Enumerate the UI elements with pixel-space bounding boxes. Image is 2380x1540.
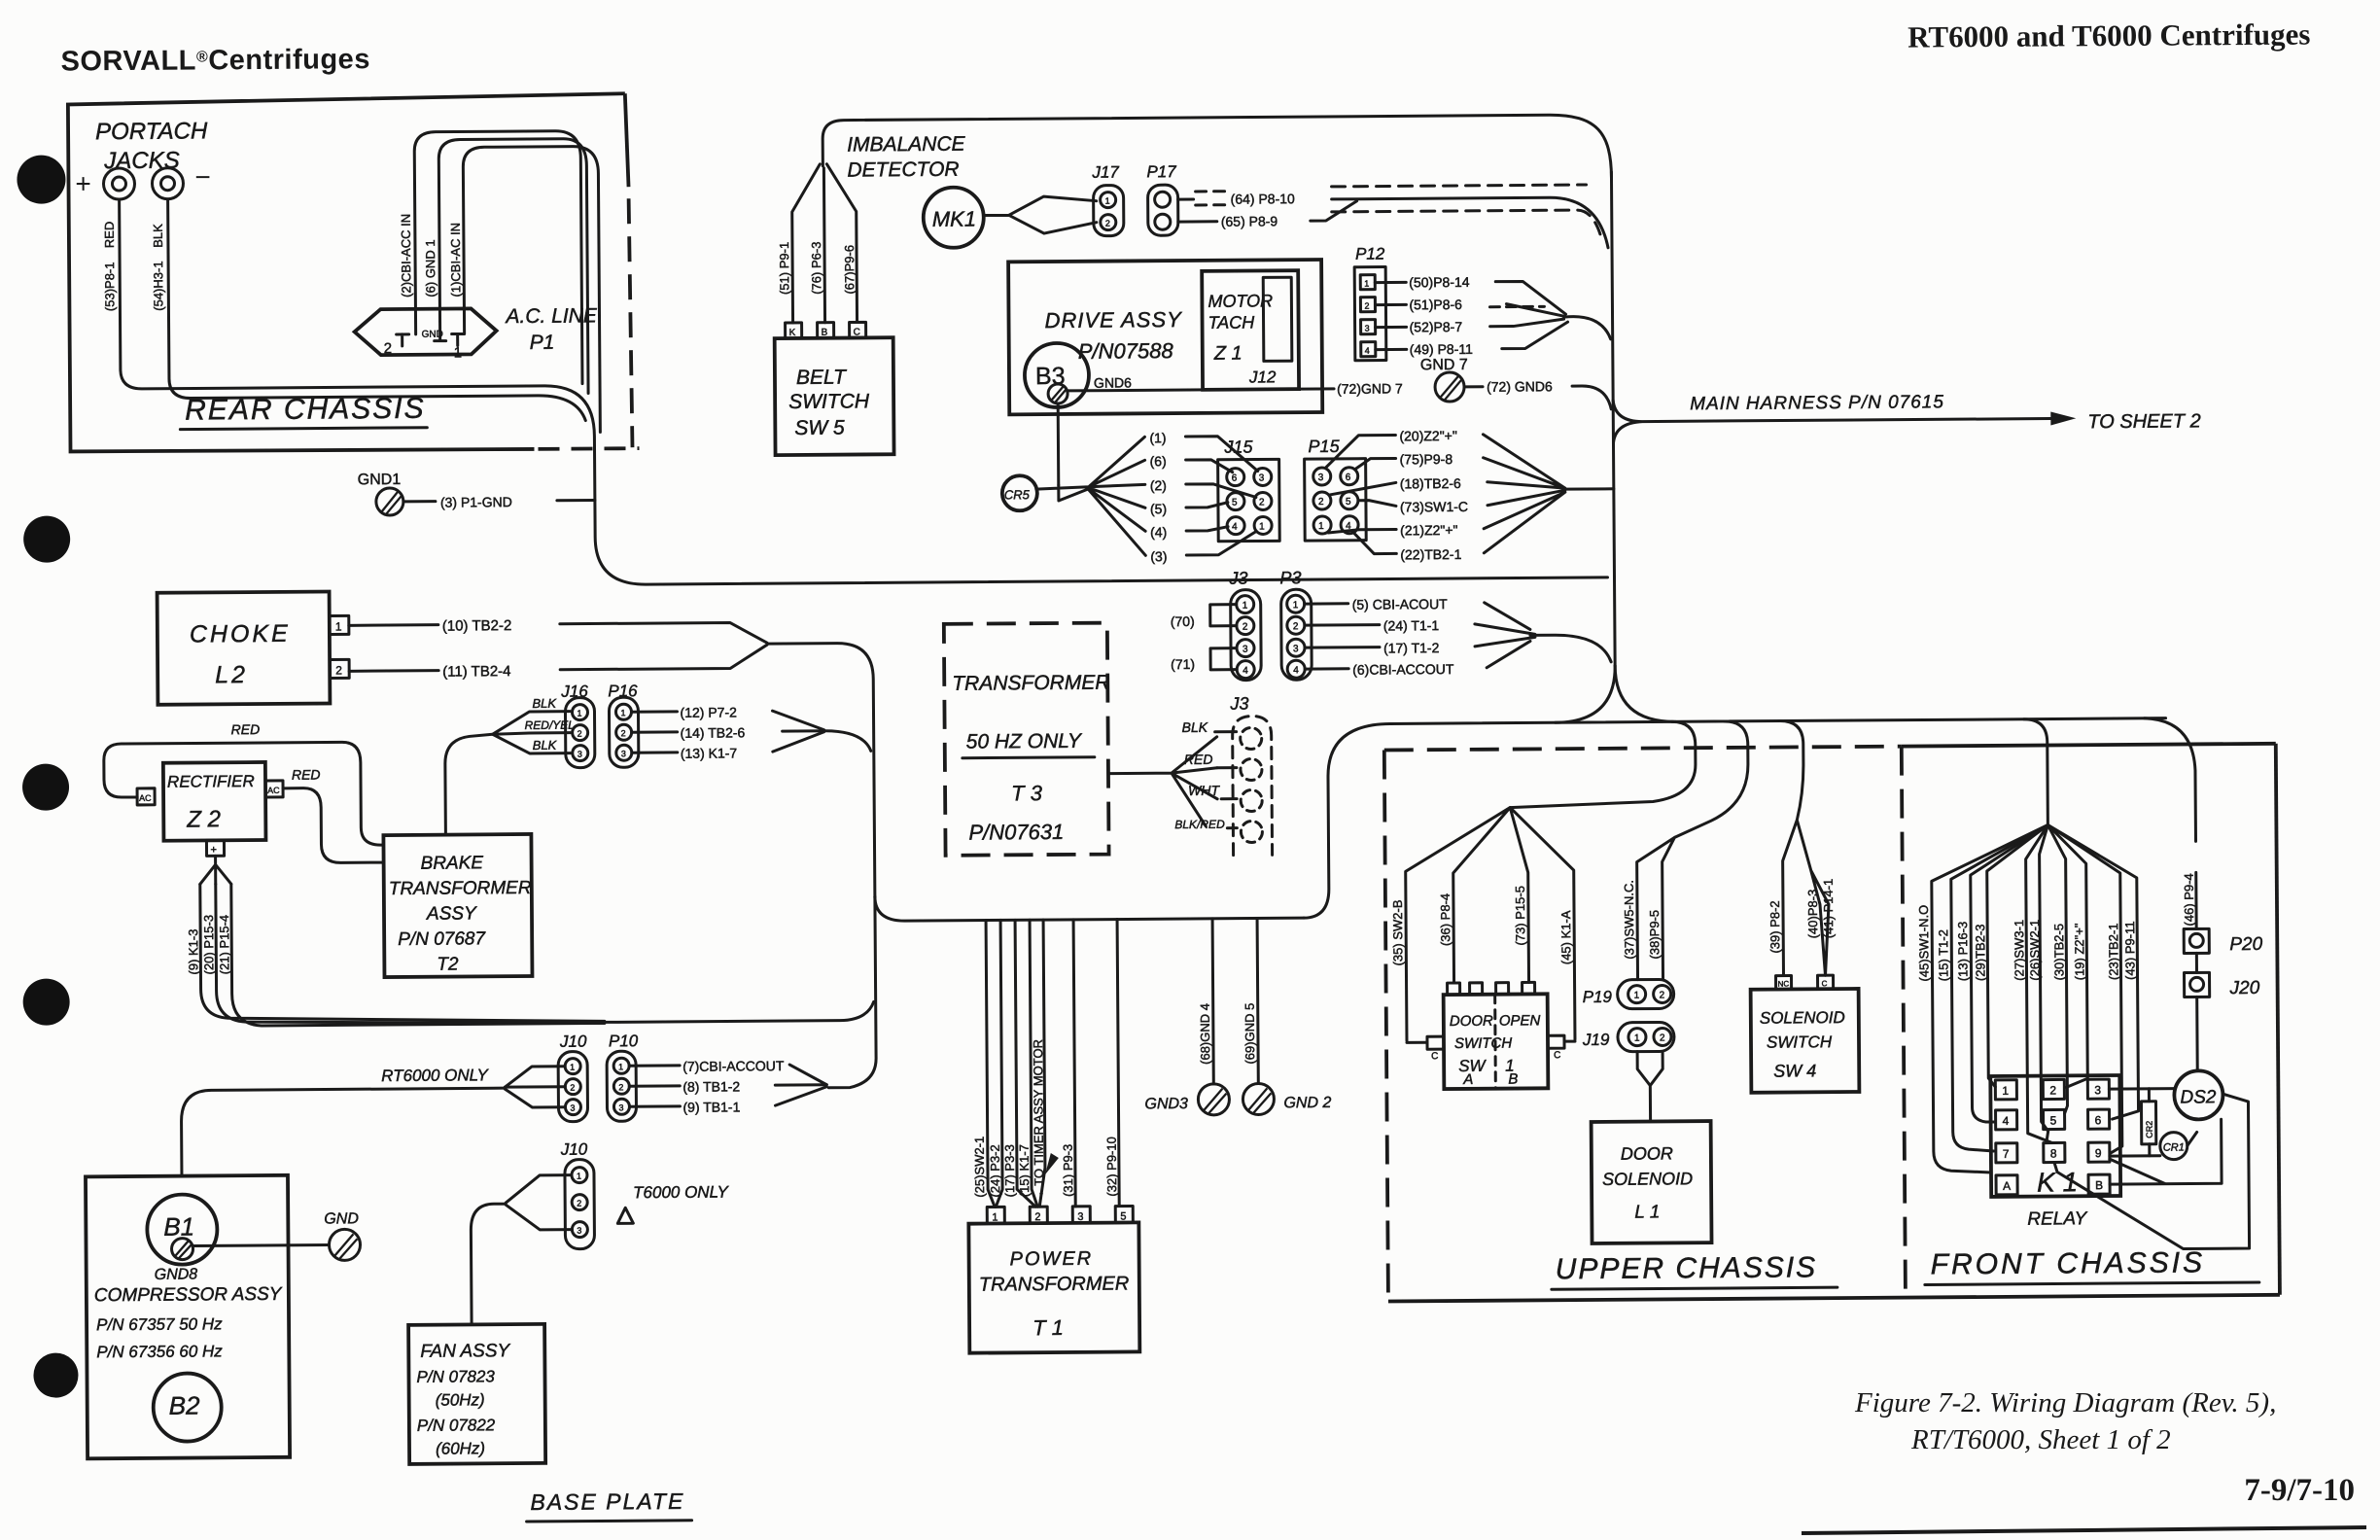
svg-text:MOTOR: MOTOR	[1207, 291, 1273, 310]
wire P10-3	[629, 1104, 680, 1107]
svg-text:5: 5	[1232, 498, 1238, 508]
svg-text:(31) P9-3: (31) P9-3	[1061, 1144, 1075, 1197]
svg-text:3: 3	[1365, 324, 1370, 333]
svg-text:P15: P15	[1308, 437, 1340, 456]
svg-text:SW 5: SW 5	[794, 417, 845, 439]
svg-text:2: 2	[1105, 219, 1110, 228]
svg-text:P/N 07823: P/N 07823	[416, 1367, 495, 1386]
connector A.C. LINE P1 hexagon	[354, 308, 496, 355]
svg-text:C: C	[854, 327, 860, 337]
svg-text:TO SHEET 2: TO SHEET 2	[2087, 410, 2200, 433]
svg-text:+: +	[75, 168, 91, 198]
wire drop to K1 fan	[2024, 719, 2048, 825]
svg-text:POWER: POWER	[1010, 1248, 1094, 1271]
svg-text:(76) P6-3: (76) P6-3	[809, 242, 823, 295]
svg-text:(72) GND6: (72) GND6	[1487, 378, 1553, 394]
svg-text:AC: AC	[139, 793, 152, 803]
svg-text:(29)TB2-3: (29)TB2-3	[1973, 924, 1987, 981]
svg-text:(18)TB2-6: (18)TB2-6	[1400, 475, 1461, 491]
svg-text:RED: RED	[1184, 752, 1213, 767]
wire P3 bundle to trunk	[1530, 635, 1611, 663]
wire long RED from Z2 AC-left	[104, 742, 384, 847]
wire J19 to L1	[1637, 1051, 1663, 1121]
svg-text:(3) P1-GND: (3) P1-GND	[440, 494, 512, 510]
svg-text:DS2: DS2	[2180, 1087, 2217, 1107]
solenoid L1 box	[1592, 1121, 1712, 1243]
K1 terminal 4	[1996, 1110, 2017, 1130]
svg-text:(9) K1-3: (9) K1-3	[186, 928, 200, 974]
bottom rule	[1802, 1527, 2366, 1533]
svg-text:6: 6	[2095, 1113, 2102, 1127]
K1 terminal 2	[2043, 1079, 2064, 1099]
svg-text:(70): (70)	[1171, 613, 1195, 629]
svg-text:FRONT CHASSIS: FRONT CHASSIS	[1931, 1246, 2206, 1280]
wire J15 bundle merge to trunk	[1483, 434, 1614, 553]
wire P15 pin3 to (20)	[1325, 435, 1395, 468]
node SW1 branch fan	[1405, 807, 1575, 1040]
ground screw GND8	[171, 1239, 192, 1260]
svg-text:GND 2: GND 2	[1283, 1095, 1331, 1111]
svg-text:BLK/RED: BLK/RED	[1174, 818, 1225, 831]
svg-text:2: 2	[577, 1199, 581, 1208]
wire (4) to J15 pin4	[1186, 527, 1228, 531]
wire left C stub	[1407, 1041, 1427, 1044]
bracket (70) jumper pins1-2	[1210, 605, 1237, 626]
svg-text:7: 7	[2003, 1147, 2010, 1161]
relay K1 box	[1990, 1075, 2120, 1197]
wire choke-1	[349, 623, 438, 627]
svg-text:(13) P16-3: (13) P16-3	[1955, 922, 1970, 982]
svg-text:P1: P1	[530, 332, 555, 354]
svg-text:(51) P9-1: (51) P9-1	[777, 242, 791, 295]
motor B3	[1025, 343, 1089, 407]
svg-text:P/N 07822: P/N 07822	[417, 1416, 496, 1435]
svg-text:(64) P8-10: (64) P8-10	[1231, 191, 1295, 206]
wire S-bend bundle up to y746	[1303, 723, 1391, 918]
svg-text:−: −	[194, 161, 211, 192]
svg-text:1: 1	[335, 619, 342, 633]
upper chassis dashed border	[1384, 751, 1388, 1300]
svg-text:1: 1	[618, 1062, 623, 1071]
chassis divider dashed	[1902, 747, 1906, 1296]
svg-text:(20) P15-3: (20) P15-3	[201, 915, 216, 975]
svg-text:(7)CBI-ACCOUT: (7)CBI-ACCOUT	[682, 1058, 785, 1074]
svg-text:SWITCH: SWITCH	[788, 390, 870, 413]
wire P15 pin2 to (18)	[1330, 482, 1396, 494]
svg-text:Z 1: Z 1	[1213, 343, 1242, 365]
svg-text:CR5: CR5	[1004, 487, 1031, 502]
svg-text:FAN ASSY: FAN ASSY	[420, 1341, 510, 1362]
wire P12-1	[1375, 281, 1406, 284]
wire CR5 fan to J15 leads	[1035, 437, 1145, 556]
svg-text:2: 2	[1364, 301, 1369, 311]
wire T1 lead (17)P3-3	[1015, 920, 1035, 1207]
K1 terminal B	[2088, 1174, 2110, 1194]
svg-text:(24) P3-2: (24) P3-2	[988, 1144, 1002, 1197]
wire P10-2	[629, 1084, 680, 1087]
wire drop to SW1 branch	[1510, 721, 1697, 807]
choke L2 box	[157, 591, 331, 704]
svg-text:MK1: MK1	[932, 207, 976, 231]
svg-text:P19: P19	[1583, 988, 1613, 1006]
svg-text:K: K	[789, 328, 796, 338]
svg-text:RED: RED	[102, 222, 117, 249]
svg-text:SW 4: SW 4	[1773, 1061, 1816, 1080]
svg-text:1: 1	[1242, 601, 1248, 612]
svg-text:MAIN HARNESS P/N 07615: MAIN HARNESS P/N 07615	[1690, 392, 1944, 414]
svg-text:2: 2	[570, 1083, 575, 1093]
wire harness horizontal y746	[1390, 718, 2166, 724]
svg-text:BLK: BLK	[1182, 719, 1208, 735]
wire TO TIMER ASSY MOTOR (arrow)	[1037, 920, 1045, 1207]
svg-text:DOOR: DOOR	[1621, 1143, 1673, 1163]
svg-text:(6): (6)	[1150, 453, 1167, 469]
wire (3) to J15 pin1	[1186, 531, 1256, 555]
svg-text:1: 1	[1318, 521, 1324, 532]
svg-text:P/N07588: P/N07588	[1078, 338, 1174, 364]
SW5 terminal B	[818, 323, 834, 338]
svg-text:(52)P8-7: (52)P8-7	[1410, 319, 1463, 334]
svg-text:3: 3	[1259, 472, 1265, 483]
ground screw GND6 on B3	[1048, 384, 1067, 403]
wire Z2 + fan to three leads	[200, 856, 231, 884]
svg-text:A: A	[1462, 1071, 1473, 1088]
rear chassis box	[68, 93, 628, 452]
motor tach Z1 box	[1202, 270, 1299, 390]
svg-text:4: 4	[2003, 1114, 2010, 1128]
wire P1 GND up/right	[438, 139, 588, 395]
svg-text:C: C	[1554, 1050, 1560, 1061]
wire J16 bundle into T2 top	[445, 734, 494, 834]
svg-text:1: 1	[1634, 1033, 1640, 1044]
transformer T3 box (dashed, 50Hz only)	[944, 623, 1109, 856]
svg-text:3: 3	[1318, 472, 1324, 483]
svg-text:DOOR: DOOR	[1450, 1013, 1493, 1030]
svg-text:OPEN: OPEN	[1499, 1012, 1541, 1029]
svg-text:NC: NC	[1778, 979, 1790, 988]
svg-text:(21) P15-4: (21) P15-4	[217, 915, 231, 975]
svg-text:2: 2	[1242, 622, 1248, 633]
svg-text:RT6000 and T6000 Centrifuges: RT6000 and T6000 Centrifuges	[1907, 17, 2311, 54]
wire GND7 to trunk	[1464, 385, 1483, 388]
connector P20	[2184, 928, 2209, 953]
svg-text:REAR CHASSIS: REAR CHASSIS	[185, 393, 426, 427]
svg-text:(23)TB2-1: (23)TB2-1	[2106, 923, 2120, 980]
wire P12-4	[1376, 348, 1407, 351]
svg-text:(25)SW2-1: (25)SW2-1	[972, 1137, 987, 1198]
wire RT6000 line to compressor	[181, 1088, 506, 1175]
wire B3 gnd to GND7	[1067, 389, 1334, 391]
wire main vertical down (choke/J16 junction to J10 merge)	[827, 896, 876, 1087]
svg-text:ASSY: ASSY	[426, 903, 477, 924]
wire P16-3	[632, 751, 678, 753]
wire SW5 stem to top harness	[822, 115, 1611, 184]
svg-text:(46) P9-4: (46) P9-4	[2182, 873, 2196, 926]
svg-text:GND8: GND8	[155, 1266, 198, 1282]
svg-text:(5) CBI-ACOUT: (5) CBI-ACOUT	[1352, 596, 1449, 612]
diode CR5	[1002, 475, 1037, 510]
svg-text:(6) GND 1: (6) GND 1	[423, 239, 437, 297]
svg-text:(68)GND 4: (68)GND 4	[1198, 1003, 1212, 1065]
wire T1 lead (32)P9-10	[1117, 920, 1119, 1207]
wire TO SHEET 2 with arrow	[1613, 398, 2050, 443]
svg-text:(41) P14-1: (41) P14-1	[1821, 879, 1836, 939]
svg-text:AC: AC	[267, 786, 280, 795]
connector J20	[2184, 972, 2209, 997]
svg-text:(2): (2)	[1150, 477, 1167, 493]
svg-text:RT6000 ONLY: RT6000 ONLY	[381, 1066, 489, 1085]
svg-text:3: 3	[1242, 645, 1248, 655]
svg-text:C: C	[1431, 1051, 1438, 1062]
wire fan to J10 pins 1,3	[471, 1175, 573, 1325]
svg-text:BLK: BLK	[151, 224, 165, 248]
svg-text:(4): (4)	[1150, 524, 1167, 540]
wire P15 pin4 to (22)	[1353, 532, 1396, 553]
svg-text:(6)CBI-ACCOUT: (6)CBI-ACCOUT	[1352, 661, 1454, 678]
wire P17-1 dashed to trunk	[1178, 197, 1194, 200]
svg-text:RT/T6000, Sheet 1 of 2: RT/T6000, Sheet 1 of 2	[1910, 1424, 2171, 1455]
svg-text:(37)SW5-N.C.: (37)SW5-N.C.	[1622, 880, 1637, 960]
svg-text:GND: GND	[324, 1210, 359, 1227]
svg-text:7-9/7-10: 7-9/7-10	[2244, 1473, 2355, 1508]
warning triangle note 1	[617, 1207, 633, 1223]
wire P15 pin6 to (75)	[1355, 458, 1396, 469]
wire trunk bottom fillet left	[1555, 666, 1615, 722]
K1 terminal 1	[1995, 1080, 2016, 1100]
svg-text:GND1: GND1	[358, 472, 402, 488]
wire P3-2	[1305, 623, 1380, 627]
svg-text:PORTACH: PORTACH	[95, 118, 208, 145]
svg-text:CR2: CR2	[2145, 1121, 2154, 1138]
svg-text:SORVALL®Centrifuges: SORVALL®Centrifuges	[60, 44, 370, 77]
K1 terminal 7	[1996, 1143, 2017, 1163]
wire (9)K1-3 lead	[200, 881, 605, 1024]
wire (5) to J15 pin5	[1186, 503, 1228, 507]
wire P3-4	[1305, 667, 1348, 670]
SW1 terminal C right	[1548, 1035, 1564, 1048]
P1 pin 2	[397, 334, 409, 346]
svg-text:Z 2: Z 2	[186, 806, 221, 832]
svg-text:J10: J10	[559, 1032, 587, 1051]
svg-text:(45)SW1-N.O: (45)SW1-N.O	[1916, 905, 1932, 982]
svg-text:(10) TB2-2: (10) TB2-2	[442, 617, 512, 635]
diode CR1	[2160, 1132, 2187, 1159]
svg-text:→ TO TIMER ASSY MOTOR: → TO TIMER ASSY MOTOR	[1031, 1039, 1046, 1202]
wire GND5 drop	[1257, 918, 1258, 1083]
svg-text:UPPER CHASSIS: UPPER CHASSIS	[1556, 1251, 1818, 1285]
svg-text:A.C. LINE: A.C. LINE	[504, 304, 598, 328]
switch SW5 box	[775, 337, 894, 455]
svg-text:8: 8	[2050, 1146, 2057, 1160]
bracket (71) jumper pins3-4	[1210, 648, 1237, 670]
SW1 terminals NO NC NC NO on top	[1448, 983, 1460, 995]
svg-text:DETECTOR: DETECTOR	[847, 158, 959, 182]
lamp DS2	[2174, 1070, 2222, 1119]
svg-text:2: 2	[1660, 990, 1665, 1000]
svg-text:(1): (1)	[1149, 430, 1166, 445]
front chassis right border	[2276, 744, 2280, 1295]
svg-text:(3): (3)	[1150, 548, 1167, 564]
svg-text:(73)SW1-C: (73)SW1-C	[1400, 499, 1468, 515]
svg-text:(13) K1-7: (13) K1-7	[681, 745, 738, 760]
svg-text:(65) P8-9: (65) P8-9	[1221, 213, 1278, 228]
assembly COMPRESSOR box	[86, 1175, 290, 1459]
wire GND1 to bundle	[403, 500, 595, 501]
choke terminal 2	[330, 659, 349, 678]
svg-text:J12: J12	[1248, 367, 1277, 386]
svg-text:3: 3	[577, 750, 582, 759]
wire T1 lead (24)P3-2	[994, 920, 1002, 1207]
wire main trunk vertical	[1611, 172, 1615, 666]
svg-text:BASE PLATE: BASE PLATE	[530, 1488, 684, 1515]
svg-text:4: 4	[1242, 666, 1248, 677]
svg-text:RED/YEL: RED/YEL	[525, 718, 575, 732]
svg-text:P/N 67356 60 Hz: P/N 67356 60 Hz	[96, 1342, 223, 1361]
svg-text:(45) K1-A: (45) K1-A	[1558, 910, 1573, 964]
transformer T1 box	[968, 1222, 1139, 1352]
T1 terminal 5	[1115, 1206, 1133, 1222]
wire P12-2	[1375, 303, 1406, 306]
wire choke-2	[349, 669, 438, 673]
svg-text:J20: J20	[2229, 978, 2260, 998]
svg-text:J17: J17	[1091, 163, 1119, 182]
svg-text:6: 6	[1346, 472, 1351, 483]
wire right C stub	[1564, 1040, 1575, 1043]
svg-text:IMBALANCE: IMBALANCE	[847, 133, 966, 157]
svg-text:(32) P9-10: (32) P9-10	[1104, 1137, 1119, 1197]
wire J16 fan (BLK/REDYEL/BLK)	[492, 712, 570, 754]
svg-text:9: 9	[2095, 1146, 2102, 1160]
svg-text:2: 2	[2049, 1083, 2056, 1097]
svg-text:RELAY: RELAY	[2027, 1208, 2087, 1229]
wire (6) to J15 pin6	[1186, 460, 1233, 472]
svg-text:P/N07631: P/N07631	[968, 820, 1064, 845]
svg-text:(36) P8-4: (36) P8-4	[1438, 893, 1452, 946]
svg-text:1: 1	[620, 708, 625, 717]
svg-text:J19: J19	[1582, 1031, 1610, 1049]
svg-text:1: 1	[1259, 521, 1265, 532]
wire Z2 AC-right to brake box	[283, 787, 384, 863]
wire P16-1	[631, 710, 677, 713]
wire jack- down and right	[168, 196, 586, 424]
svg-text:T 1: T 1	[1032, 1315, 1064, 1340]
SW4 terminal NC	[1776, 975, 1792, 989]
svg-text:(27)SW3-1: (27)SW3-1	[2012, 920, 2026, 981]
K1 terminal 8	[2044, 1142, 2065, 1162]
wire K1-9 to CR1	[2110, 1154, 2160, 1157]
svg-text:1: 1	[1293, 600, 1299, 611]
wire SW5-C up	[826, 164, 857, 323]
svg-text:C: C	[1822, 979, 1828, 988]
K1 terminal 6	[2088, 1109, 2110, 1129]
svg-text:GND6: GND6	[1094, 374, 1132, 390]
svg-text:(9) TB1-1: (9) TB1-1	[682, 1099, 740, 1114]
K1 terminal A	[1996, 1175, 2017, 1195]
svg-text:4: 4	[1365, 346, 1370, 356]
assembly FAN ASSY box	[408, 1324, 545, 1464]
svg-text:5: 5	[2050, 1113, 2057, 1127]
rectifier Z2 box	[163, 762, 266, 841]
svg-text:2: 2	[384, 340, 392, 357]
svg-text:P12: P12	[1355, 245, 1385, 263]
wire CR1 to DS2	[2187, 1132, 2197, 1145]
svg-text:SWITCH: SWITCH	[1454, 1035, 1512, 1052]
wire (2) to J15 pin2	[1186, 483, 1256, 498]
chassis bottom border	[1388, 1295, 2280, 1302]
motor B1	[147, 1194, 218, 1265]
P1 gnd pin	[435, 322, 446, 341]
wire T1 lead (25)SW2-1	[986, 920, 995, 1207]
svg-text:T2: T2	[437, 955, 459, 975]
wire T3 to J3 fan	[1108, 737, 1218, 827]
svg-text:1: 1	[577, 1172, 581, 1181]
svg-text:(69)GND 5: (69)GND 5	[1242, 1003, 1257, 1065]
P1 pin 1	[452, 333, 464, 345]
svg-text:(54)H3-1: (54)H3-1	[151, 261, 165, 310]
wire harness horizontal y945 (junction to T1 area)	[875, 893, 1304, 921]
svg-text:(14) TB2-6: (14) TB2-6	[681, 724, 746, 740]
svg-text:TRANSFORMER: TRANSFORMER	[389, 878, 532, 899]
wire P16 bundle to vertical	[824, 730, 871, 751]
svg-text:(71): (71)	[1171, 656, 1195, 672]
wire K1-3 to DS2	[2109, 1087, 2175, 1090]
svg-text:(30)TB2-5: (30)TB2-5	[2051, 924, 2066, 981]
svg-text:BLK: BLK	[533, 738, 558, 752]
svg-text:T6000 ONLY: T6000 ONLY	[633, 1182, 729, 1202]
svg-text:(67)P9-6: (67)P9-6	[842, 245, 857, 295]
wire MK1 to J17	[984, 196, 1097, 234]
svg-text:1: 1	[1364, 279, 1369, 289]
svg-text:(5): (5)	[1150, 501, 1167, 516]
diode CR2 (bar)	[2141, 1102, 2155, 1144]
svg-text:(53)P8-1: (53)P8-1	[102, 262, 117, 311]
svg-text:BLK: BLK	[532, 696, 557, 711]
wire (20)P15-3 lead	[216, 881, 605, 1026]
wire choke bundle to vertical	[767, 643, 875, 897]
svg-text:(15) T1-2: (15) T1-2	[1936, 929, 1950, 981]
svg-text:3: 3	[2094, 1083, 2101, 1097]
svg-text:(17) P3-3: (17) P3-3	[1002, 1144, 1017, 1197]
svg-text:3: 3	[618, 1102, 623, 1112]
svg-text:(2)CBI-ACC IN: (2)CBI-ACC IN	[399, 214, 414, 297]
svg-text:50 HZ ONLY: 50 HZ ONLY	[966, 730, 1083, 753]
svg-text:TRANSFORMER: TRANSFORMER	[952, 672, 1109, 695]
svg-text:J10: J10	[560, 1140, 588, 1159]
svg-text:P/N 07687: P/N 07687	[398, 928, 486, 950]
wire B3 down to CR5 node	[1057, 403, 1061, 485]
svg-text:1: 1	[454, 344, 462, 361]
wire P15 pin1 to (21)	[1328, 529, 1396, 533]
wire P3-3	[1305, 646, 1380, 649]
svg-text:GND: GND	[422, 330, 443, 340]
svg-text:TACH: TACH	[1207, 312, 1255, 332]
svg-text:(50Hz): (50Hz)	[436, 1390, 485, 1409]
SW4 terminal C	[1818, 975, 1834, 989]
svg-text:3: 3	[621, 749, 626, 758]
wire T1 lead (15)K1-7	[1030, 920, 1037, 1207]
svg-text:GND3: GND3	[1144, 1096, 1188, 1112]
svg-text:(75)P9-8: (75)P9-8	[1400, 451, 1453, 467]
svg-text:(8) TB1-2: (8) TB1-2	[682, 1078, 740, 1094]
wire K1-B to DS2	[2053, 1094, 2249, 1249]
svg-text:J3: J3	[1229, 694, 1248, 714]
svg-text:P20: P20	[2229, 934, 2262, 955]
svg-text:J15: J15	[1223, 437, 1253, 457]
svg-text:5: 5	[1346, 497, 1351, 507]
transformer BRAKE T2 box	[383, 834, 532, 977]
ground GND2	[1242, 1083, 1274, 1114]
svg-text:B: B	[2095, 1178, 2103, 1192]
